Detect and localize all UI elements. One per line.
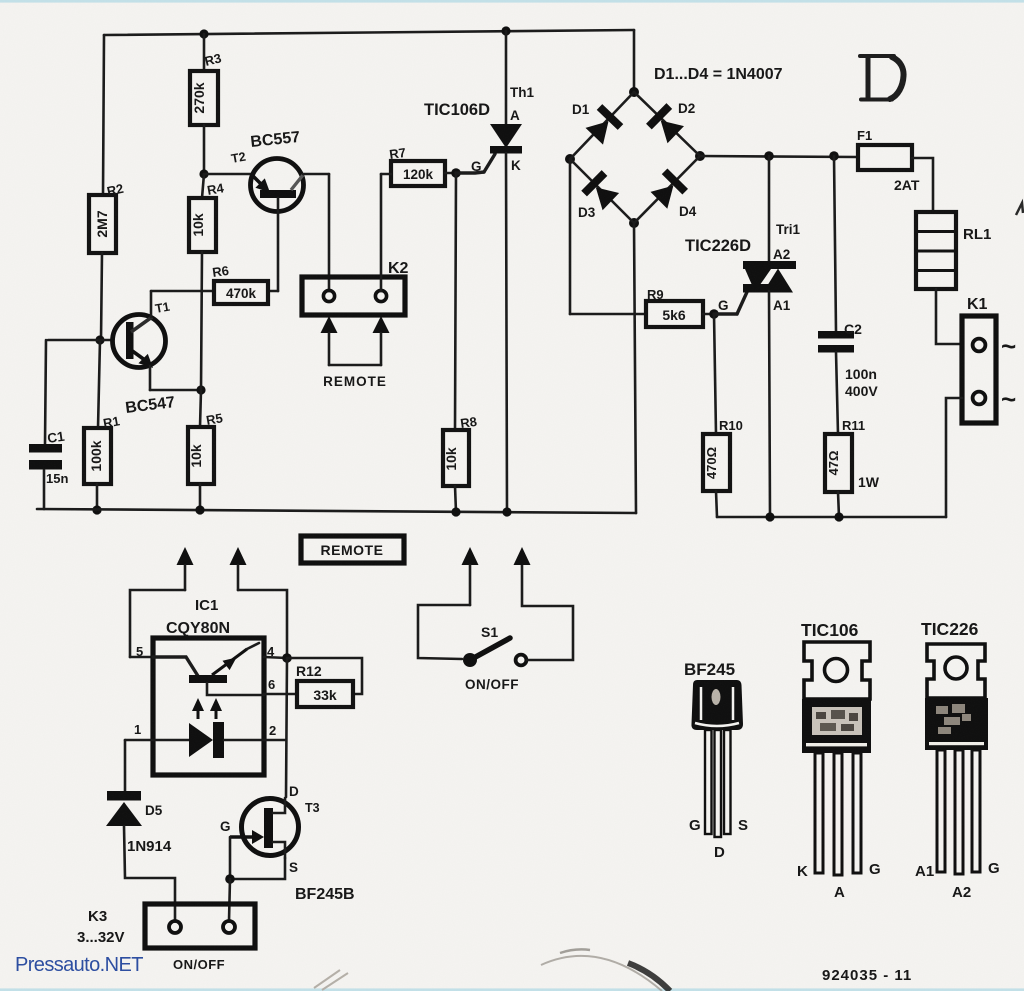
wire to R9 left (570, 313, 646, 316)
paper grain overlay (0, 0, 1, 1)
K2 terminal 2 (375, 290, 386, 301)
triac Tri1 TIC226D (743, 261, 796, 293)
wire C1 top stem (45, 340, 46, 444)
node R5 on ground rail (195, 505, 204, 514)
wire junction down to K3 terminal 2 (229, 879, 230, 921)
resistor R12 (297, 681, 353, 707)
resistor R2 (89, 195, 116, 253)
wire T2 base down to R6 (277, 198, 280, 291)
wire R11 bottom stem (838, 492, 839, 517)
wire pin4 junction to R12 right leg (287, 658, 362, 694)
wire R6 right to T2 base (268, 290, 278, 293)
wire left drop from top rail to R2 (103, 35, 104, 195)
thyristor Th1 cathode bar (490, 146, 522, 154)
wire RL1 to K1 (936, 289, 962, 344)
wire D5 down to K3 (124, 826, 175, 921)
IC1 LED cathode wire (224, 739, 264, 742)
K2 plug arrow 2 (373, 316, 390, 333)
resistor R5 (188, 427, 214, 484)
diode D3 (578, 173, 619, 220)
wire Th1 gate diagonal (484, 154, 495, 172)
node junction on top rail at R3 (199, 29, 208, 38)
wire gate node to Th1 gate (456, 172, 484, 173)
wire left ground rail (37, 509, 636, 513)
wire R7 left to K2 drop (381, 173, 391, 176)
wire R10 bottom stem (716, 491, 717, 517)
wire bridge edge T-R (634, 92, 700, 156)
wire Th1 cathode down to ground rail (506, 153, 507, 512)
node triac A2 tap (764, 151, 774, 161)
wire R2 bottom to base node (101, 253, 102, 340)
IC1 photon arrow 1 (192, 698, 204, 719)
node bridge bottom (629, 218, 639, 228)
switch S1 lever (470, 638, 510, 660)
IC1 LED anode wire (153, 739, 189, 742)
scan artifact right edge mark (1016, 203, 1023, 215)
wire S1 right loop (522, 565, 573, 660)
wire R9 right to gate node (703, 313, 714, 316)
connector K2 (302, 277, 405, 315)
wire remote loop (329, 364, 381, 367)
diode D2 (649, 101, 695, 143)
top scan edge strip (0, 0, 1024, 3)
wire R4 top stem (202, 174, 204, 198)
relay coil RL1 (916, 212, 991, 289)
wire R5 top stem (200, 390, 201, 427)
wire triac gate diagonal (737, 292, 747, 314)
wire K2 arrow2 stem (380, 333, 383, 365)
wire T1 emitter down (149, 366, 152, 390)
node R11 on rail (834, 512, 843, 521)
wire R1 top stem (98, 340, 100, 428)
resistor R10 (703, 434, 730, 491)
scan artifact arc bottom (541, 956, 662, 991)
thyristor Th1 triangle (490, 124, 522, 148)
remote arrow right of IC1 (230, 547, 247, 565)
switch S1 remote arrow right (514, 547, 531, 565)
IC1 phototransistor base wire (153, 657, 198, 676)
wire fuse to RL1 (912, 158, 933, 212)
resistor R1 (84, 428, 111, 484)
capacitor C1 (29, 444, 62, 453)
wire T3 source down and left (230, 858, 285, 879)
node gate junction (451, 168, 461, 178)
wire R10 top stem (714, 314, 716, 434)
wire right ground rail (717, 516, 946, 519)
transistor T3 BF245B JFET (220, 784, 355, 903)
IC1 base stub to pin6 (207, 683, 264, 695)
wire R5 bottom stem (199, 484, 202, 510)
wire T2 collector down to K2 (328, 174, 331, 291)
transistor T1 BC547 (113, 300, 177, 417)
wire pin4 rail down to pin2 and T3 drain (286, 658, 287, 797)
node R8 on ground rail (451, 507, 460, 516)
K1 terminal 1 (973, 339, 986, 352)
switch S1 throw contact (516, 655, 527, 666)
wire S1 left loop (418, 605, 470, 659)
wire base line C1 to T1 (48, 339, 113, 342)
wire R8 top stem (455, 173, 456, 430)
wire R3 bottom to T2 base node (203, 125, 206, 174)
wire bridge edge B-R (634, 156, 700, 223)
wire bridge edge T-L (570, 92, 634, 159)
wire pin1 out (125, 739, 153, 742)
IC1 phototransistor emitter diagonal with arrow (212, 643, 259, 675)
wire top supply rail (104, 30, 634, 35)
resistor R3 (190, 71, 218, 125)
node triac A1 on rail (765, 512, 774, 521)
K1 terminal 2 (973, 392, 986, 405)
wire K2 arrow1 stem (328, 333, 331, 365)
K3 terminal 1 (169, 921, 181, 933)
wire S1 left stem (469, 565, 472, 605)
node gate source junction (225, 874, 235, 884)
label box REMOTE (301, 536, 404, 563)
IC1 phototransistor base bar (189, 675, 227, 683)
resistor R11 (825, 434, 852, 492)
capacitor C2 (818, 331, 854, 339)
wire pin2 out (264, 739, 286, 742)
scan artifact diagonal bottom left (314, 970, 348, 990)
IC1 photon arrow 2 (210, 698, 222, 719)
big letter D page marker (860, 56, 904, 100)
IC1 LED triangle (189, 723, 213, 757)
wire R4 bottom to node (201, 252, 202, 390)
wire C1 bottom stem (43, 470, 46, 509)
wire triac A2 drop (768, 156, 771, 262)
wire bridge left node down (569, 159, 572, 314)
resistor R6 (214, 281, 268, 304)
wire T2 collector right (303, 173, 329, 176)
diode D4 (651, 171, 697, 219)
package drawing TIC226 TO-220 (915, 619, 1000, 901)
wire K2 terminal2 drop (380, 174, 383, 291)
node triac gate junction (709, 309, 719, 319)
package drawing BF245 TO-92 (684, 660, 748, 861)
wire node to T2 (204, 173, 252, 176)
optocoupler IC1 CQY80N box (153, 638, 264, 775)
connector K1 (962, 316, 996, 423)
resistor R8 (443, 430, 469, 486)
node C2 tap (829, 151, 839, 161)
package drawing TIC106 TO-220 (797, 620, 881, 901)
thyristor Th1 TIC106D anode wire (505, 31, 508, 124)
K2 terminal 1 (323, 290, 334, 301)
resistor R9 (646, 301, 703, 327)
switch S1 pole contact (463, 653, 477, 667)
wire T3 gate down (229, 837, 232, 879)
wire pin4 out to junction (264, 657, 287, 658)
wire bridge right node to fuse (700, 156, 858, 157)
node junction on top rail at Th1 (501, 26, 510, 35)
IC1 LED cathode bar (213, 722, 224, 758)
remote arrow left of IC1 (177, 547, 194, 565)
K2 plug arrow 1 (321, 316, 338, 333)
wire T1 collector up (150, 291, 153, 317)
node bridge left (565, 154, 575, 164)
wire bridge top stem (633, 30, 636, 92)
node R4 R5 junction (196, 385, 205, 394)
connector K3 (145, 904, 255, 948)
transistor T2 BC557 (230, 129, 303, 212)
wire triac A1 down to rail (769, 291, 770, 517)
K3 terminal 2 (223, 921, 235, 933)
node R1 on ground rail (92, 505, 101, 514)
wire bridge edge B-L (570, 159, 634, 223)
wire gate node to triac gate (714, 312, 737, 315)
resistor R4 (189, 198, 216, 252)
wire C2 to R11 (836, 352, 838, 434)
node T2 emitter junction (199, 169, 208, 178)
wire T1 collector to R6 (151, 290, 214, 293)
wire C2 top stem (834, 156, 836, 331)
wire arrow2 stem (237, 565, 240, 590)
wire pin1 down to D5 (124, 740, 127, 791)
node base junction of T1 (95, 335, 104, 344)
wire bridge bottom down to ground rail (634, 223, 636, 513)
node pin4 junction (282, 653, 292, 663)
wire R7 right to gate node (445, 172, 456, 175)
wire pin5 into IC1 (130, 656, 153, 659)
node bridge top (629, 87, 639, 97)
diode D5 1N914 (106, 791, 172, 855)
node bridge right (695, 151, 705, 161)
wire R3 top stem (203, 34, 206, 71)
wire arrow1 to IC1 pin5 drop (130, 590, 185, 657)
resistor R7 (391, 161, 445, 186)
bottom scan edge strip (0, 988, 1024, 991)
switch S1 remote arrow left (462, 547, 479, 565)
node Th1 K on ground rail (502, 507, 511, 516)
wire R8 bottom stem (455, 486, 456, 512)
wire R1 bottom stem (96, 484, 99, 510)
wire arrow2 to pin4 rail (238, 590, 287, 658)
wire arrow1 stem (184, 565, 187, 590)
wire T1 emitter to divider node (150, 389, 201, 392)
wire pin6 to R12 (264, 693, 297, 696)
fuse F1 (858, 145, 912, 170)
diode D1 (572, 102, 621, 145)
wire K1 bottom terminal to rail (946, 398, 962, 517)
